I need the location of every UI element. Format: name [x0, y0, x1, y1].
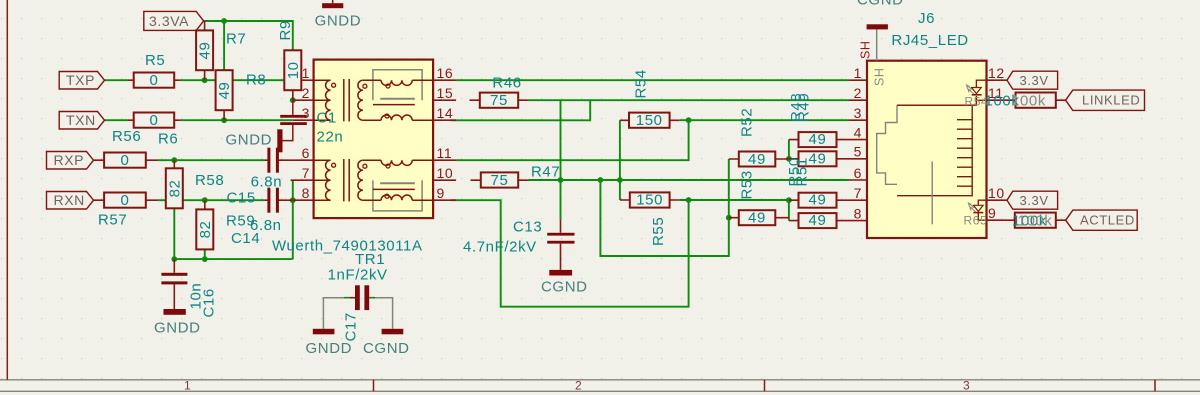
- transformer TR1 pin 6: [291, 159, 314, 161]
- svg-text:6: 6: [854, 165, 862, 181]
- svg-text:16: 16: [437, 65, 454, 81]
- ground GNDD at C1 rotated: [226, 129, 283, 152]
- svg-text:R9: R9: [277, 20, 294, 40]
- wire pin7/pin8 drop column: [292, 180, 294, 259]
- svg-text:82: 82: [166, 180, 183, 198]
- svg-text:49: 49: [809, 192, 827, 209]
- LED link inside J6: [897, 80, 988, 108]
- svg-text:15: 15: [437, 85, 454, 101]
- svg-text:150: 150: [636, 112, 663, 129]
- transformer TR1 top choke winding upper: [363, 80, 433, 85]
- transformer TR1 bottom channel secondary winding: [358, 160, 363, 200]
- svg-text:C17: C17: [343, 312, 360, 341]
- wire 3.3VA rail to R9: [204, 21, 293, 50]
- transformer TR1 top choke winding lower: [363, 115, 433, 120]
- svg-text:GNDD: GNDD: [154, 320, 201, 337]
- junction RXP R58: [171, 157, 177, 163]
- junction R53 left: [726, 215, 732, 221]
- wire TXN net R6 to pin3: [180, 119, 292, 121]
- capacitor C16 10n vertical: [161, 259, 217, 317]
- wire quad top bend: [788, 140, 790, 160]
- junction detour left: [598, 177, 604, 183]
- svg-text:TXN: TXN: [66, 112, 96, 128]
- svg-text:49: 49: [809, 131, 827, 148]
- wire R58 bottom to C16 rail: [173, 208, 175, 259]
- svg-text:1: 1: [854, 65, 862, 81]
- svg-text:R55: R55: [650, 217, 667, 246]
- svg-text:10: 10: [988, 185, 1005, 201]
- svg-text:5: 5: [854, 144, 862, 160]
- resistor R50 value 49: [786, 157, 849, 209]
- junction R55 right: [686, 197, 692, 203]
- resistor R55 value 150: [620, 192, 679, 246]
- junction 3.3VA R8: [221, 18, 227, 24]
- svg-text:49: 49: [748, 210, 766, 227]
- transformer TR1 bottom choke core lines: [380, 182, 415, 184]
- transformer TR1 pin 10: [433, 179, 456, 181]
- transformer TR1 bottom channel primary winding: [314, 160, 331, 200]
- svg-text:R58: R58: [195, 172, 224, 189]
- connector J6 pin 4: [849, 139, 867, 141]
- svg-text:49: 49: [216, 82, 233, 100]
- transformer TR1 bottom choke staple gray: [373, 180, 422, 211]
- svg-text:1: 1: [184, 379, 191, 393]
- svg-text:C15: C15: [227, 190, 256, 207]
- transformer TR1 pin 1: [302, 79, 314, 81]
- svg-text:CGND: CGND: [857, 0, 904, 9]
- svg-text:82: 82: [197, 221, 214, 239]
- svg-text:1nF/2kV: 1nF/2kV: [328, 266, 388, 283]
- junction quad bottom left: [786, 197, 792, 203]
- svg-text:RXN: RXN: [54, 192, 85, 208]
- svg-text:75: 75: [491, 172, 509, 189]
- connector J6 pin SH top: [876, 29, 878, 60]
- capacitor C13 4.7nF/2kV: [463, 219, 575, 270]
- svg-text:R53: R53: [739, 170, 756, 199]
- svg-text:0: 0: [150, 72, 159, 89]
- transformer TR1 bottom choke winding lower: [363, 195, 433, 200]
- power label 3.3V top: [987, 65, 1058, 89]
- transformer TR1 bottom choke winding upper: [363, 160, 433, 165]
- svg-text:C1: C1: [317, 110, 337, 127]
- junction R54 right: [686, 117, 692, 123]
- resistor R51 value 49: [789, 157, 849, 229]
- svg-text:GNDD: GNDD: [306, 340, 353, 357]
- svg-text:75: 75: [490, 92, 508, 109]
- transformer TR1 top channel primary winding: [314, 80, 331, 120]
- svg-text:0: 0: [121, 152, 130, 169]
- connector J6 pin 1: [849, 79, 867, 81]
- wire TXN label to R6: [105, 119, 129, 121]
- frame division ticks: [374, 380, 1156, 392]
- power label 3.3VA: [144, 11, 204, 30]
- wire R52 drop detour: [600, 159, 728, 256]
- svg-text:2: 2: [302, 85, 310, 101]
- svg-text:4.7nF/2kV: 4.7nF/2kV: [463, 239, 537, 256]
- transformer TR1 pin 14: [433, 119, 456, 121]
- WIRES-LAYER: [105, 21, 850, 307]
- capacitor C17 1nF/2kV horizontal: [323, 266, 392, 341]
- svg-text:7: 7: [302, 165, 310, 181]
- svg-text:3: 3: [302, 105, 310, 121]
- transformer TR1 top channel secondary winding: [358, 80, 363, 120]
- svg-text:GNDD: GNDD: [315, 13, 362, 30]
- connector J6 RJ45_LED body: [849, 10, 988, 238]
- svg-text:9: 9: [437, 185, 445, 201]
- wire net n15 R46 out to RJ45 pin2: [529, 99, 850, 101]
- junction pin2 C1 R9: [290, 97, 296, 103]
- svg-text:49: 49: [809, 150, 827, 167]
- transformer TR1 pin 16: [433, 79, 456, 81]
- svg-text:2: 2: [854, 85, 862, 101]
- svg-text:49: 49: [197, 42, 214, 60]
- svg-text:11: 11: [437, 145, 453, 161]
- svg-text:150: 150: [636, 192, 663, 209]
- svg-text:GNDD: GNDD: [226, 132, 273, 149]
- svg-text:0: 0: [121, 192, 130, 209]
- junction RXN R59: [202, 197, 208, 203]
- svg-text:2: 2: [575, 379, 582, 393]
- svg-text:RXP: RXP: [54, 152, 85, 168]
- junction TXN R8: [221, 117, 227, 123]
- resistor R64 value 100k top: [985, 85, 1066, 110]
- transformer TR1 top channel core: [344, 79, 349, 121]
- resistor R58 value 82 vertical: [166, 160, 225, 208]
- svg-text:R65: R65: [964, 214, 988, 228]
- wire R54 out to RJ45 pin3: [679, 119, 849, 121]
- global label TXP: [59, 72, 104, 90]
- svg-text:CGND: CGND: [541, 279, 588, 296]
- svg-text:100k: 100k: [1018, 213, 1053, 230]
- connector J6 jack contact comb: [957, 120, 972, 187]
- resistor R57 value 0: [94, 192, 158, 229]
- ground CGND at C13: [541, 270, 588, 296]
- wire pin14 net: [451, 100, 590, 120]
- resistor R7 value 49 vertical: [196, 21, 246, 80]
- svg-text:3.3V: 3.3V: [1020, 193, 1049, 208]
- svg-text:R51: R51: [794, 157, 811, 186]
- resistor R6 value 0: [128, 112, 180, 148]
- transformer TR1 pin 3: [293, 119, 314, 121]
- wire quad bottom bend: [788, 200, 790, 220]
- connector J6 divider line: [931, 162, 933, 225]
- junction C16 right: [202, 256, 208, 262]
- power GNDD top: [315, 0, 362, 30]
- resistor R9 value 10 vertical: [277, 20, 302, 100]
- resistor R5 value 0: [128, 52, 180, 89]
- svg-text:SH: SH: [873, 67, 887, 86]
- wire C16 top rail: [174, 258, 292, 260]
- svg-text:R46: R46: [492, 75, 521, 92]
- resistor R54 value 150: [620, 69, 679, 129]
- junction C13 top: [558, 177, 564, 183]
- junction C16 left: [171, 256, 177, 262]
- svg-text:Wuerth_749013011A: Wuerth_749013011A: [272, 238, 423, 255]
- svg-text:14: 14: [437, 105, 454, 121]
- svg-text:R52: R52: [739, 108, 756, 137]
- capacitor C14 6.8n: [231, 188, 293, 247]
- wire TXP net R5 to transformer pin1: [180, 79, 291, 81]
- ground GNDD at C16: [154, 309, 201, 337]
- svg-text:1: 1: [302, 65, 310, 81]
- resistor R46 value 75: [470, 75, 529, 110]
- transformer TR1 pin 15: [433, 99, 456, 101]
- wire R54/R55 left column: [619, 120, 621, 200]
- wire R59 bottom to C16 rail: [204, 249, 206, 259]
- junction pin8 column: [290, 197, 296, 203]
- svg-text:3.3VA: 3.3VA: [149, 13, 189, 29]
- connector J6 jack symbol: [897, 105, 972, 196]
- global label ACTLED: [1066, 210, 1138, 230]
- svg-text:R56: R56: [112, 128, 141, 145]
- resistor R53 value 49: [729, 170, 789, 226]
- svg-text:0: 0: [150, 112, 159, 129]
- transformer TR1 pin 7: [291, 179, 314, 181]
- svg-text:C13: C13: [513, 219, 542, 236]
- svg-text:100k: 100k: [1011, 93, 1046, 110]
- transformer TR1 top choke staple gray: [373, 70, 422, 100]
- wire C13 column: [560, 100, 562, 219]
- capacitor C15 6.8n: [227, 148, 291, 207]
- svg-text:3: 3: [963, 379, 970, 393]
- power label 3.3V bottom: [987, 185, 1058, 209]
- svg-text:6: 6: [302, 145, 310, 161]
- wire net n11 pin11 to R54 right: [456, 120, 688, 160]
- transformer TR1 bottom channel core: [344, 159, 349, 201]
- resistor R49 value 49: [789, 93, 849, 168]
- svg-text:R7: R7: [226, 31, 246, 48]
- transformer TR1 pin 2: [293, 99, 314, 101]
- frame border lines: [0, 380, 1200, 392]
- wire TXP label to R5: [105, 79, 129, 81]
- svg-text:10: 10: [437, 165, 454, 181]
- svg-text:LINKLED: LINKLED: [1082, 93, 1140, 108]
- svg-text:RJ45_LED: RJ45_LED: [891, 32, 968, 49]
- svg-text:12: 12: [988, 65, 1005, 81]
- wire net A R47 out to RJ45 pin6: [529, 179, 850, 181]
- svg-text:ACTLED: ACTLED: [1080, 213, 1135, 228]
- svg-text:10: 10: [285, 61, 302, 79]
- capacitor C1 22n vertical: [280, 100, 307, 140]
- wire net n16 pin16 to RJ45 pin1: [456, 79, 849, 81]
- resistor R8 value 49 vertical: [216, 70, 267, 120]
- resistor R59 value 82 vertical: [196, 200, 255, 249]
- connector J6 pin 6: [849, 179, 867, 181]
- wire RXN net R57 to C14: [158, 199, 265, 201]
- resistor R56 value 0: [94, 128, 158, 169]
- wire 3.3VA drop to R8: [223, 21, 225, 70]
- svg-text:R49: R49: [796, 93, 813, 122]
- svg-text:49: 49: [748, 151, 766, 168]
- global label LINKLED: [1066, 90, 1145, 110]
- resistor R52 value 49: [729, 108, 789, 168]
- svg-text:R57: R57: [98, 212, 127, 229]
- svg-text:8: 8: [854, 206, 862, 222]
- resistor R65 value 100k bottom: [987, 205, 1066, 230]
- transformer TR1 Wuerth_749013011A body: [272, 60, 456, 268]
- wire RXP net R56 to C15: [158, 159, 265, 161]
- svg-text:7: 7: [854, 185, 862, 201]
- svg-text:SH: SH: [859, 40, 873, 59]
- ground CGND at J6 shield: [857, 0, 904, 29]
- resistor R47 value 75: [471, 164, 561, 189]
- junction R52 right quad: [786, 156, 792, 162]
- resistor R48 value 49: [788, 93, 849, 148]
- global label TXN: [59, 112, 104, 130]
- svg-text:J6: J6: [918, 10, 935, 27]
- junction R54 column: [617, 177, 623, 183]
- global label RXP: [47, 152, 94, 170]
- svg-text:R8: R8: [246, 71, 266, 88]
- svg-text:8: 8: [302, 185, 310, 201]
- global label RXN: [47, 192, 94, 210]
- svg-text:TXP: TXP: [66, 72, 95, 88]
- LED act inside J6: [964, 200, 988, 227]
- svg-text:R54: R54: [633, 69, 650, 98]
- transformer TR1 pin 9: [433, 199, 456, 201]
- connector J6 pin 5: [849, 158, 867, 160]
- frame left red edge: [6, 0, 8, 380]
- svg-text:22n: 22n: [317, 129, 344, 146]
- svg-text:C14: C14: [231, 230, 260, 247]
- svg-text:CGND: CGND: [363, 340, 410, 357]
- ground CGND at C17: [363, 329, 410, 357]
- svg-text:R47: R47: [531, 164, 560, 181]
- svg-text:9: 9: [988, 205, 996, 221]
- connector J6 pin 2: [849, 99, 867, 101]
- connector J6 pin 3: [849, 119, 867, 121]
- svg-text:3: 3: [854, 105, 862, 121]
- transformer TR1 top choke core lines: [380, 98, 415, 100]
- svg-text:R5: R5: [145, 52, 165, 69]
- svg-text:49: 49: [809, 212, 827, 229]
- svg-text:3.3V: 3.3V: [1020, 73, 1049, 88]
- transformer TR1 pin 8: [293, 199, 314, 201]
- connector J6 pin 8: [849, 220, 867, 222]
- transformer TR1 pin 11: [433, 159, 456, 161]
- ground GNDD at C17: [306, 329, 353, 357]
- wire pin9 detour rail: [451, 200, 689, 307]
- svg-text:4: 4: [854, 125, 862, 141]
- svg-text:R6: R6: [158, 131, 178, 148]
- wire net B R55 out to quad: [679, 199, 789, 201]
- svg-text:C16: C16: [201, 288, 218, 317]
- junction TXP R7: [202, 77, 208, 83]
- connector J6 pin 7: [849, 199, 867, 201]
